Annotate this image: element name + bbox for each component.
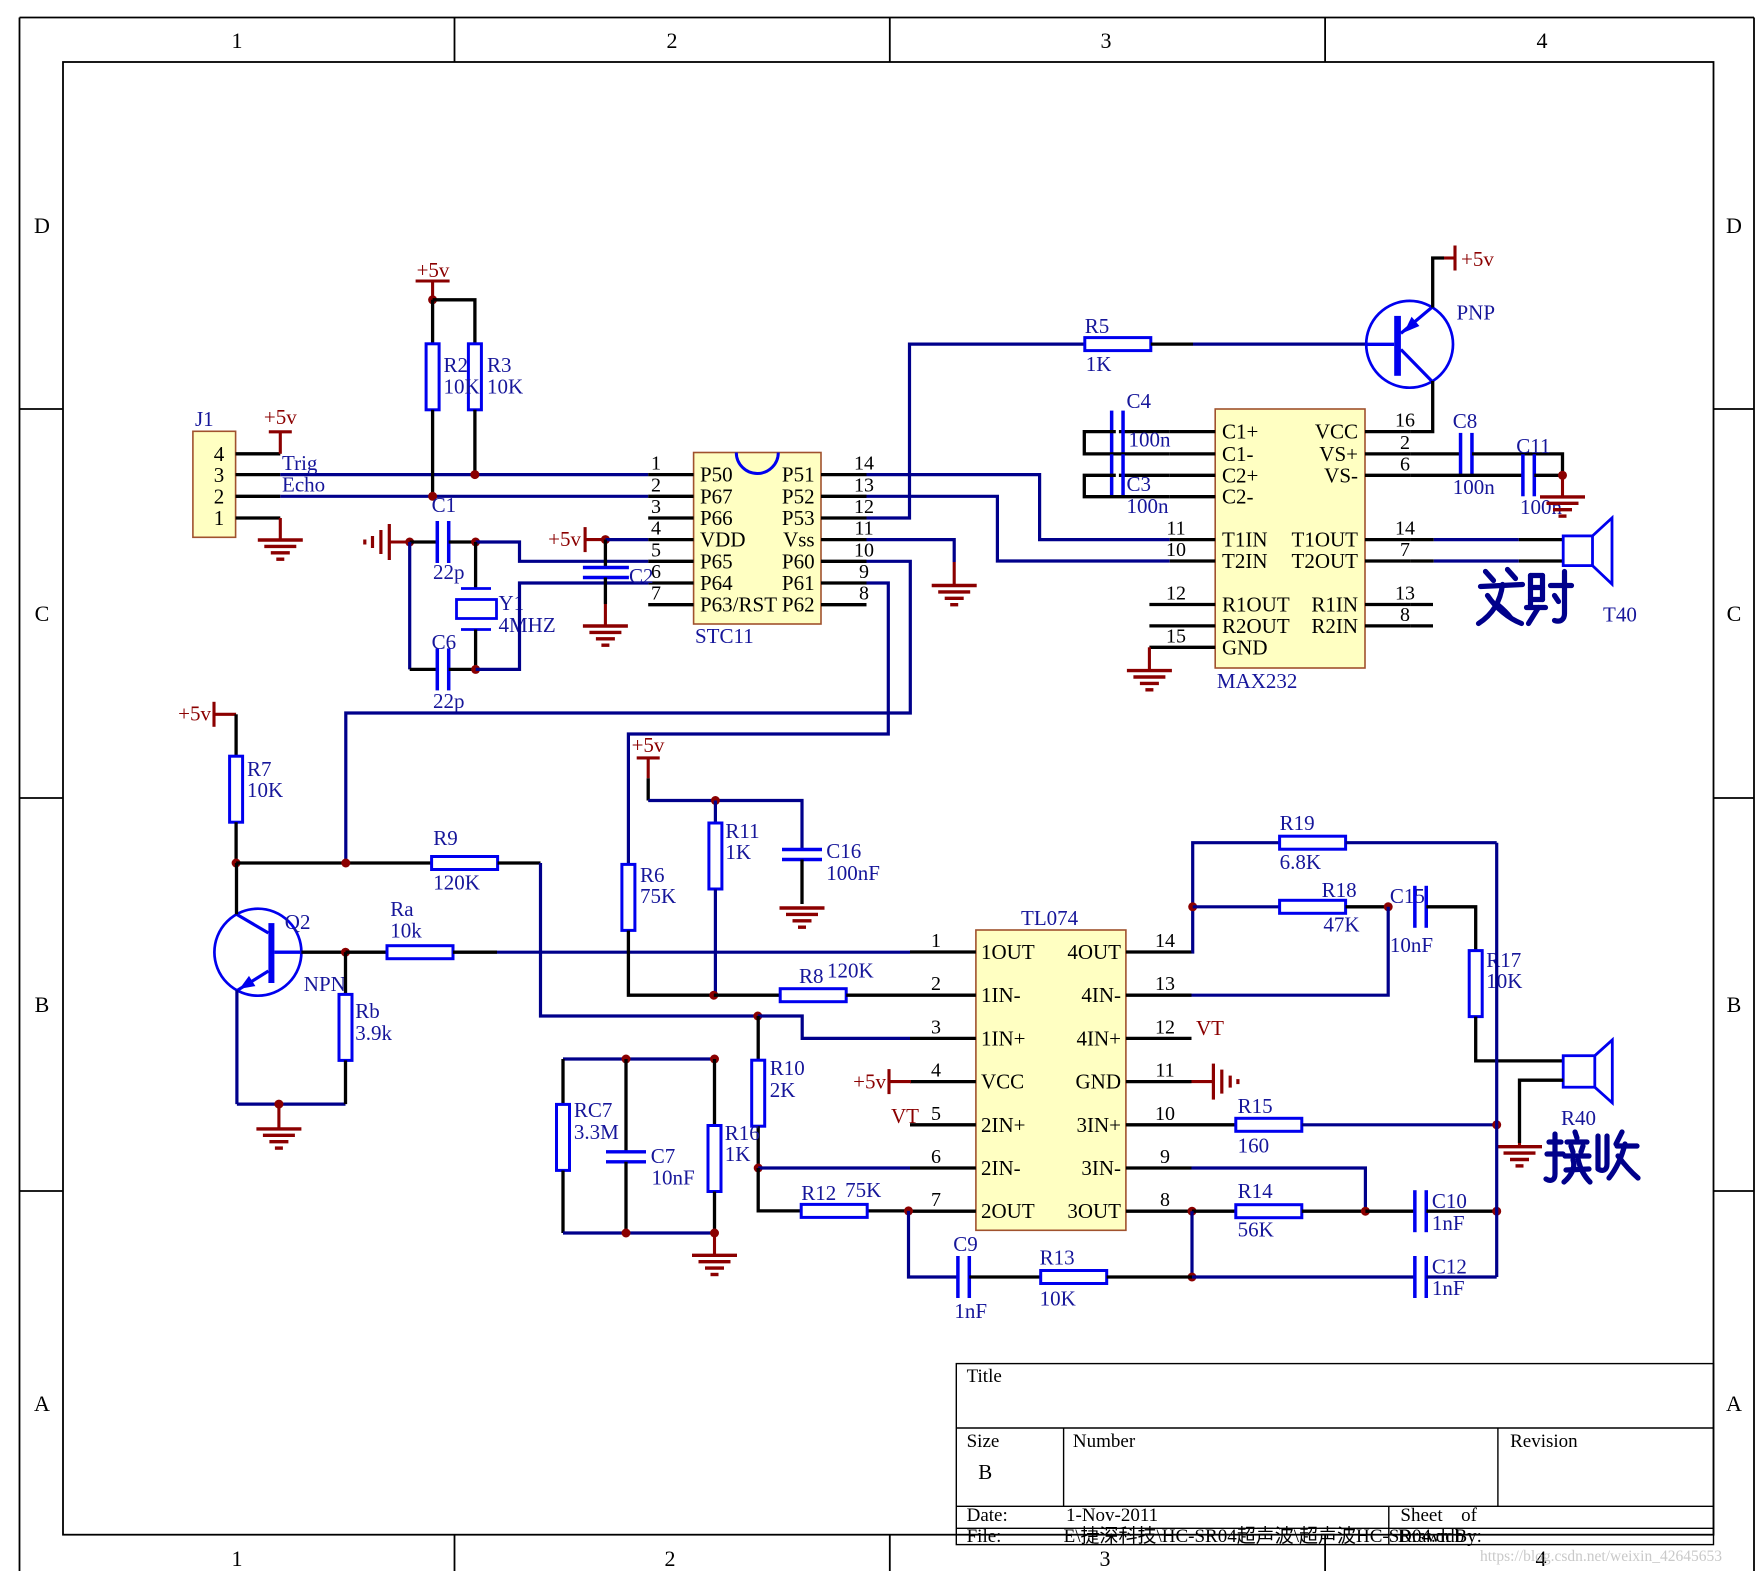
wire +5v to VCC pin4 xyxy=(889,1080,911,1083)
svg-text:+5v: +5v xyxy=(178,701,211,725)
STC11 pin leads and numbers xyxy=(648,475,866,605)
wire node to C10 xyxy=(1365,1210,1414,1213)
wire GND pin11 stub xyxy=(1192,1080,1214,1083)
svg-text:4IN-: 4IN- xyxy=(1081,983,1121,1007)
wire C1 node to STC pin5 P65 xyxy=(476,542,649,561)
svg-text:13: 13 xyxy=(1155,973,1175,995)
resistor R3 xyxy=(468,344,481,410)
svg-text:2IN-: 2IN- xyxy=(981,1156,1021,1180)
svg-text:6.8K: 6.8K xyxy=(1280,850,1321,874)
junction C1/Y1/P65 xyxy=(471,538,480,547)
svg-text:GND: GND xyxy=(1222,635,1268,659)
wire R10 node to R12 xyxy=(758,1168,801,1211)
svg-text:R12: R12 xyxy=(801,1181,836,1205)
svg-text:4MHZ: 4MHZ xyxy=(499,613,556,637)
resistor RC7 xyxy=(557,1098,620,1170)
wire R5 to PNP base xyxy=(1151,342,1193,345)
wire R19 right xyxy=(1346,841,1497,844)
svg-text:3OUT: 3OUT xyxy=(1067,1199,1121,1223)
svg-text:14: 14 xyxy=(1155,930,1175,952)
capacitor C6 xyxy=(432,630,465,713)
svg-text:R19: R19 xyxy=(1280,811,1315,835)
wire +5v to R11/C16 row xyxy=(647,778,650,800)
MAX232 pin numbers xyxy=(1166,410,1415,648)
svg-text:C11: C11 xyxy=(1516,434,1550,458)
capacitor C1 xyxy=(432,493,465,584)
svg-text:3: 3 xyxy=(1100,1546,1111,1571)
svg-text:D: D xyxy=(1726,213,1742,238)
wire R16 top stem xyxy=(713,1059,716,1126)
resistor R2 xyxy=(426,344,439,410)
transistor Q1 PNP xyxy=(1366,300,1495,387)
svg-text:1IN+: 1IN+ xyxy=(981,1026,1026,1050)
svg-text:12: 12 xyxy=(1166,583,1186,605)
wire R5-PNP base blue xyxy=(1193,343,1366,346)
svg-text:VCC: VCC xyxy=(1315,420,1358,444)
wire P52 to MAX232 T2IN xyxy=(867,496,1170,561)
svg-text:1K: 1K xyxy=(725,1142,751,1166)
junction C10/vertical xyxy=(1492,1207,1501,1216)
svg-text:10K: 10K xyxy=(487,375,523,399)
wire ground to C1 node xyxy=(389,540,409,543)
wire P61 to R6 top xyxy=(628,583,888,864)
svg-text:10K: 10K xyxy=(444,375,480,399)
wire gnd node down to C6 xyxy=(408,542,411,669)
text 发射 (transmit) xyxy=(1479,570,1572,624)
svg-text:A: A xyxy=(34,1391,50,1416)
svg-text:R9: R9 xyxy=(433,826,458,850)
capacitor C9 xyxy=(953,1232,987,1323)
svg-text:12: 12 xyxy=(1155,1016,1175,1038)
junction R2/Echo xyxy=(428,492,437,501)
svg-text:R13: R13 xyxy=(1040,1246,1075,1270)
svg-text:+5v: +5v xyxy=(632,733,665,757)
wire C9 branch down xyxy=(909,1211,958,1277)
capacitor C8 xyxy=(1453,409,1496,499)
svg-text:100n: 100n xyxy=(1520,495,1563,519)
wire R15 to vertical xyxy=(1302,1123,1497,1126)
wire RC7 bottom xyxy=(561,1171,564,1234)
wire Vss to ground xyxy=(867,540,955,562)
svg-text:14: 14 xyxy=(854,453,874,475)
crystal Y1 4MHZ xyxy=(457,589,497,630)
svg-text:R1OUT: R1OUT xyxy=(1222,593,1290,617)
svg-text:160: 160 xyxy=(1238,1134,1270,1158)
resistor R17 xyxy=(1469,948,1522,1017)
svg-text:10nF: 10nF xyxy=(1390,933,1433,957)
junction 2OUT/R12/C9 xyxy=(904,1206,913,1215)
wire P51 to MAX232 T1IN xyxy=(867,475,1170,540)
wire Q2 base to Ra node xyxy=(301,951,345,954)
svg-text:Drawn By:: Drawn By: xyxy=(1398,1526,1482,1547)
svg-text:2: 2 xyxy=(665,1546,676,1571)
wire 3IN+ lead ext xyxy=(1192,1123,1236,1126)
junction R16 bottom xyxy=(710,1229,719,1238)
wire Rb bottom xyxy=(344,1060,347,1104)
text 接收 (receive) xyxy=(1546,1132,1638,1182)
svg-text:P64: P64 xyxy=(700,571,733,595)
wire C15 to R17 xyxy=(1426,907,1475,951)
svg-text:P52: P52 xyxy=(782,484,815,508)
wire gnd node to C1 left xyxy=(410,540,438,543)
wire emitter ground stub xyxy=(277,1104,280,1129)
svg-text:R1IN: R1IN xyxy=(1311,593,1358,617)
svg-text:R10: R10 xyxy=(770,1056,805,1080)
svg-text:VDD: VDD xyxy=(700,528,746,552)
svg-text:1-Nov-2011: 1-Nov-2011 xyxy=(1066,1505,1158,1526)
svg-text:File:: File: xyxy=(967,1526,1002,1547)
svg-text:T1OUT: T1OUT xyxy=(1292,528,1359,552)
svg-text:VT: VT xyxy=(891,1104,919,1128)
wire C4 loop to C1- xyxy=(1084,432,1169,454)
power +5v at TL074 VCC xyxy=(887,1069,890,1094)
svg-text:22p: 22p xyxy=(433,689,465,713)
svg-text:C16: C16 xyxy=(826,839,861,863)
svg-text:P66: P66 xyxy=(700,506,733,530)
svg-text:C2-: C2- xyxy=(1222,485,1254,509)
resistor R15 xyxy=(1236,1094,1302,1158)
wire T40 bottom black xyxy=(1519,559,1563,562)
junction R18/C15/4IN- xyxy=(1384,902,1393,911)
wire Q2 emitter down xyxy=(235,990,238,1104)
power +5v at R7 xyxy=(212,702,215,727)
svg-text:8: 8 xyxy=(1160,1189,1170,1211)
TL074 pin leads xyxy=(910,952,1192,1211)
svg-text:PNP: PNP xyxy=(1457,300,1496,324)
svg-text:R3: R3 xyxy=(487,353,512,377)
svg-text:47K: 47K xyxy=(1323,913,1359,937)
wire C10 to vertical xyxy=(1426,1210,1496,1213)
wire feedback vertical xyxy=(1495,843,1498,1277)
wire +5v row to R11/C16 xyxy=(648,801,802,850)
power +5v at J1 pin4 xyxy=(269,430,292,433)
svg-text:Echo: Echo xyxy=(282,473,325,497)
ground under R16 xyxy=(692,1255,737,1274)
wire C6 node to STC pin6 P64 xyxy=(476,583,649,669)
junction R3/Trig xyxy=(470,470,479,479)
wire R8 row left xyxy=(714,994,780,997)
resistor R9 xyxy=(432,826,498,895)
IC U1 STC11 xyxy=(694,453,821,649)
wire R11 top stem xyxy=(714,801,717,824)
svg-text:GND: GND xyxy=(1076,1070,1122,1094)
wire T1OUT to T40 xyxy=(1434,538,1519,541)
wire MAX GND to ground xyxy=(1148,647,1151,670)
wire R2 bottom to Echo xyxy=(431,410,434,497)
wire Y1 bottom to C6 node xyxy=(474,630,477,670)
junction R18 branch xyxy=(1188,902,1197,911)
junction C7 top xyxy=(622,1055,631,1064)
wire gnd branch to C6 left xyxy=(410,668,438,671)
junction R13/C12 row xyxy=(1188,1273,1197,1282)
resistor R6 xyxy=(622,863,676,930)
wire Ra to TL074 1OUT xyxy=(497,951,910,954)
svg-text:P53: P53 xyxy=(782,506,815,530)
svg-text:1nF: 1nF xyxy=(954,1299,987,1323)
junction Q2 base/Ra/Rb xyxy=(341,948,350,957)
TL074 pin numbers xyxy=(931,930,1175,1211)
wire +5v corner to R7 xyxy=(234,714,237,756)
resistor R14 xyxy=(1236,1179,1302,1242)
svg-text:VS+: VS+ xyxy=(1319,442,1358,466)
svg-text:P51: P51 xyxy=(782,463,815,487)
capacitor C12 xyxy=(1415,1255,1467,1301)
wire bottom row gnd stub xyxy=(713,1233,716,1255)
svg-text:+5v: +5v xyxy=(548,527,581,551)
svg-text:1K: 1K xyxy=(1086,352,1112,376)
wire +5v stem R11 xyxy=(647,758,650,778)
svg-text:P60: P60 xyxy=(782,549,815,573)
wire Vss ground stub xyxy=(953,562,956,586)
svg-text:T2OUT: T2OUT xyxy=(1292,549,1359,573)
ground at MAX232 GND xyxy=(1127,671,1172,690)
ground under R40 xyxy=(1497,1147,1542,1166)
svg-text:Size: Size xyxy=(967,1431,1000,1452)
ground under C2 xyxy=(583,626,628,645)
svg-text:6: 6 xyxy=(1400,453,1410,475)
ground at J1 pin1 xyxy=(258,540,303,559)
wire R13 to node xyxy=(1107,1275,1192,1278)
transistor Q2 NPN xyxy=(214,909,345,996)
svg-text:J1: J1 xyxy=(195,407,214,431)
resistor R16 xyxy=(708,1121,760,1192)
wire C3 loop to C2- xyxy=(1084,475,1169,496)
svg-text:MAX232: MAX232 xyxy=(1217,669,1298,693)
resistor R11 xyxy=(709,819,760,889)
svg-text:22p: 22p xyxy=(433,560,465,584)
wire +5v stem to R2 node xyxy=(431,281,434,300)
wire +5v to R7 top xyxy=(214,713,236,716)
resistor R13 xyxy=(1040,1246,1107,1311)
svg-text:4: 4 xyxy=(651,518,661,540)
svg-text:1OUT: 1OUT xyxy=(981,940,1035,964)
junction +5v/VDD/C2 xyxy=(601,535,610,544)
junction emitter row ground xyxy=(274,1100,283,1109)
svg-text:+5v: +5v xyxy=(417,258,450,282)
wire C7 top stem xyxy=(624,1059,627,1152)
ground (sideways) near C1 xyxy=(365,524,390,560)
svg-text:C6: C6 xyxy=(432,630,457,654)
junction R6/R11/R8 xyxy=(709,991,718,1000)
svg-text:8: 8 xyxy=(1400,604,1410,626)
wire C2+ to C3 xyxy=(1119,474,1170,477)
wire node to TL074 1IN+ xyxy=(758,1016,910,1038)
wire C2 ground stub xyxy=(604,604,607,626)
wire R9 to pin3 staircase xyxy=(541,863,758,1016)
svg-text:of: of xyxy=(1461,1505,1478,1526)
wire T2OUT to T40 xyxy=(1434,559,1519,562)
junction R15/vertical xyxy=(1492,1120,1501,1129)
junction R14/C10/3IN- xyxy=(1361,1207,1370,1216)
wire 4IN- to node xyxy=(1192,907,1389,995)
svg-text:B: B xyxy=(978,1460,992,1484)
svg-text:75K: 75K xyxy=(640,884,676,908)
svg-text:NPN: NPN xyxy=(304,972,346,996)
capacitor C4 xyxy=(1112,389,1171,453)
wire 2OUT lead ext xyxy=(868,1209,909,1212)
junction ground/C1/C6 node xyxy=(405,538,414,547)
resistor Ra xyxy=(387,897,453,959)
wire C1 node to Y1 top xyxy=(474,542,477,589)
junction C6/Y1/P64 xyxy=(471,665,480,674)
svg-text:100n: 100n xyxy=(1453,475,1496,499)
svg-text:2: 2 xyxy=(931,973,941,995)
wire R7 bottom to node xyxy=(234,822,237,863)
svg-text:Date:: Date: xyxy=(967,1505,1008,1526)
junction R16 top xyxy=(710,1055,719,1064)
wire RC7 left top xyxy=(561,1059,564,1104)
svg-text:10: 10 xyxy=(1166,539,1186,561)
MAX232 pin leads xyxy=(1149,432,1433,648)
svg-text:VS-: VS- xyxy=(1324,463,1358,487)
svg-text:T40: T40 xyxy=(1603,603,1637,627)
resistor R18 xyxy=(1280,878,1360,937)
svg-text:3: 3 xyxy=(931,1016,941,1038)
svg-text:3IN+: 3IN+ xyxy=(1076,1113,1121,1137)
junction C8/C11/ground xyxy=(1558,471,1567,480)
svg-text:1nF: 1nF xyxy=(1432,1211,1465,1235)
svg-text:VT: VT xyxy=(1196,1016,1224,1040)
capacitor C2 xyxy=(583,568,629,578)
wire C16 to ground xyxy=(800,860,803,905)
svg-text:STC11: STC11 xyxy=(695,624,754,648)
svg-text:5: 5 xyxy=(651,539,661,561)
svg-text:C2+: C2+ xyxy=(1222,463,1258,487)
wire +5v stub PNP xyxy=(1444,256,1455,259)
wire R18 row left xyxy=(1193,905,1280,908)
svg-text:Rb: Rb xyxy=(355,999,380,1023)
title block xyxy=(956,1364,1713,1545)
svg-text:B: B xyxy=(1727,992,1742,1017)
wire J1 pin1 to ground xyxy=(279,518,282,540)
IC U3 TL074 xyxy=(976,906,1126,1230)
svg-text:4OUT: 4OUT xyxy=(1067,940,1121,964)
svg-text:4: 4 xyxy=(1537,28,1548,53)
svg-text:P62: P62 xyxy=(782,593,815,617)
wire VS- to C11 xyxy=(1410,474,1523,477)
svg-text:C3: C3 xyxy=(1127,472,1152,496)
svg-text:11: 11 xyxy=(1166,518,1185,540)
svg-text:C1-: C1- xyxy=(1222,442,1254,466)
wire +5v node to R2 top xyxy=(431,300,434,344)
svg-text:C2: C2 xyxy=(629,564,654,588)
svg-text:+5v: +5v xyxy=(264,405,297,429)
svg-text:11: 11 xyxy=(854,518,873,540)
svg-text:10nF: 10nF xyxy=(652,1166,695,1190)
svg-text:https://blog.csdn.net/weixin_4: https://blog.csdn.net/weixin_42645653 xyxy=(1480,1548,1722,1565)
capacitor C3 xyxy=(1112,454,1169,518)
svg-text:C4: C4 xyxy=(1127,389,1152,413)
speaker T40 (transmit transducer) xyxy=(1563,518,1612,584)
capacitor C10 xyxy=(1415,1189,1467,1235)
wire net Trig xyxy=(280,473,648,476)
svg-text:2: 2 xyxy=(214,484,225,508)
svg-text:5: 5 xyxy=(931,1103,941,1125)
wire PNP collector to MAX VCC xyxy=(1410,381,1432,432)
wire C7 bottom stem xyxy=(624,1162,627,1233)
svg-text:4IN+: 4IN+ xyxy=(1076,1026,1121,1050)
svg-text:T1IN: T1IN xyxy=(1222,528,1268,552)
wire R10 top stem xyxy=(757,1016,760,1060)
svg-text:3: 3 xyxy=(651,496,661,518)
svg-text:7: 7 xyxy=(931,1189,941,1211)
svg-text:120K: 120K xyxy=(433,871,480,895)
svg-text:+5v: +5v xyxy=(1461,247,1494,271)
IC U2 MAX232 xyxy=(1215,409,1365,693)
wire Q2 emitter row xyxy=(237,1102,346,1105)
svg-text:R40: R40 xyxy=(1561,1106,1596,1130)
wire 4OUT up to R19/R18 xyxy=(1192,843,1280,952)
svg-text:12: 12 xyxy=(854,496,874,518)
svg-text:56K: 56K xyxy=(1238,1218,1274,1242)
svg-text:11: 11 xyxy=(1155,1060,1174,1082)
svg-text:R2OUT: R2OUT xyxy=(1222,614,1290,638)
wire C2 to ground xyxy=(604,578,607,605)
svg-text:75K: 75K xyxy=(845,1178,881,1202)
junction 3OUT/R14 xyxy=(1188,1207,1197,1216)
J1 pin leads xyxy=(236,454,281,518)
junction +5v/R11/C16 xyxy=(711,796,720,805)
svg-text:16: 16 xyxy=(1395,410,1415,432)
svg-text:2OUT: 2OUT xyxy=(981,1199,1035,1223)
svg-text:7: 7 xyxy=(1400,539,1410,561)
svg-text:C15: C15 xyxy=(1390,884,1425,908)
svg-text:C1: C1 xyxy=(432,493,457,517)
wire R14 to C10 node xyxy=(1302,1210,1366,1213)
resistor Rb xyxy=(339,994,393,1060)
wire C1 right to node xyxy=(449,540,476,543)
wire +5v bar to VDD node xyxy=(585,538,605,541)
svg-text:P50: P50 xyxy=(700,463,733,487)
capacitor C15 xyxy=(1390,884,1433,957)
wire J1 pin4 to +5v xyxy=(279,432,282,454)
resistor R19 xyxy=(1280,811,1346,874)
resistor R7 xyxy=(230,756,284,822)
capacitor C7 xyxy=(606,1144,695,1190)
wire R3 bottom to Trig xyxy=(473,410,476,475)
svg-text:VCC: VCC xyxy=(981,1070,1024,1094)
svg-text:C7: C7 xyxy=(651,1144,676,1168)
connector J1 xyxy=(193,407,236,537)
wire RC7 top row xyxy=(563,1057,715,1060)
power +5v above R2 xyxy=(416,279,450,282)
svg-text:P65: P65 xyxy=(700,549,733,573)
wire 3OUT branch down xyxy=(1190,1211,1193,1277)
resistor R5 xyxy=(1085,314,1151,376)
svg-text:4: 4 xyxy=(931,1060,941,1082)
svg-text:R15: R15 xyxy=(1238,1094,1273,1118)
wire 3OUT node to R14 xyxy=(1192,1210,1236,1213)
svg-text:10: 10 xyxy=(1155,1103,1175,1125)
svg-text:R2: R2 xyxy=(444,353,469,377)
svg-text:100nF: 100nF xyxy=(826,861,880,885)
wire C9 to R13 xyxy=(969,1275,1040,1278)
wire Ra left xyxy=(346,951,388,954)
svg-text:15: 15 xyxy=(1166,625,1186,647)
wire R17 bottom to R40 xyxy=(1476,1017,1564,1061)
svg-text:T2IN: T2IN xyxy=(1222,549,1268,573)
svg-text:P67: P67 xyxy=(700,484,733,508)
svg-text:9: 9 xyxy=(859,561,869,583)
ground (sideways) at pin11 xyxy=(1213,1064,1238,1100)
wire C8 to corner xyxy=(1472,454,1563,475)
junction R10 bottom/2IN- xyxy=(754,1164,763,1173)
svg-text:C10: C10 xyxy=(1432,1189,1467,1213)
svg-text:10: 10 xyxy=(854,539,874,561)
svg-text:2K: 2K xyxy=(770,1078,796,1102)
power +5v at VDD xyxy=(584,527,587,552)
svg-text:R2IN: R2IN xyxy=(1311,614,1358,638)
